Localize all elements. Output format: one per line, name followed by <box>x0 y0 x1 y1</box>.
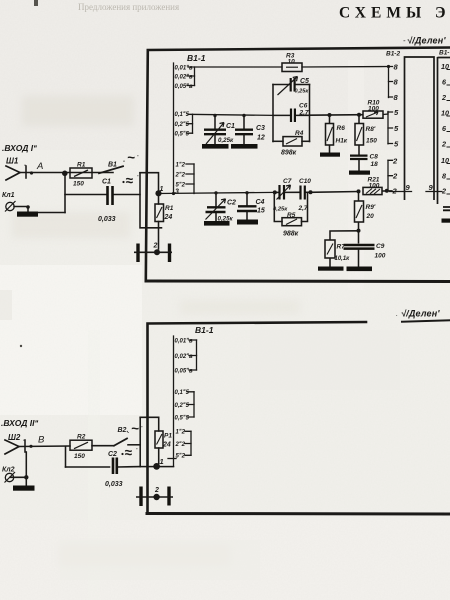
svg-text:~: ~ <box>127 150 135 165</box>
svg-text:С2: С2 <box>227 200 236 207</box>
svg-text:B: B <box>38 435 45 446</box>
svg-text:2,7: 2,7 <box>298 205 308 212</box>
svg-text:24: 24 <box>162 442 171 449</box>
svg-text:R9ʹ: R9ʹ <box>366 204 376 211</box>
svg-text:С9: С9 <box>376 243 385 250</box>
svg-text:3: 3 <box>175 189 179 196</box>
svg-text:0,01ʺв: 0,01ʺв <box>175 64 194 71</box>
svg-text:18: 18 <box>371 161 379 168</box>
svg-text:С4: С4 <box>256 199 265 206</box>
svg-text:R5: R5 <box>287 212 296 219</box>
svg-text:150: 150 <box>74 453 85 460</box>
svg-text:2: 2 <box>441 93 446 102</box>
svg-text:0,05ʺв: 0,05ʺв <box>175 83 194 90</box>
svg-text:0,02ʺв: 0,02ʺв <box>175 353 194 360</box>
svg-text:5ʺ2: 5ʺ2 <box>176 181 186 188</box>
svg-text:0,1ʺ5: 0,1ʺ5 <box>175 389 190 396</box>
svg-text:С1: С1 <box>102 179 111 186</box>
svg-text:Кл2: Кл2 <box>2 467 15 474</box>
svg-text:20: 20 <box>366 213 375 220</box>
svg-text:Ш2: Ш2 <box>8 433 21 442</box>
svg-text:В1: В1 <box>108 162 117 169</box>
svg-text:8: 8 <box>442 172 446 181</box>
svg-text:С8: С8 <box>370 154 379 161</box>
svg-text:988к: 988к <box>283 231 299 238</box>
svg-text:√/Делен': √/Делен' <box>407 36 446 46</box>
svg-text:2: 2 <box>392 172 398 181</box>
svg-text:С7: С7 <box>283 178 292 185</box>
svg-text:Р1: Р1 <box>164 433 172 440</box>
svg-text:2ʺ2: 2ʺ2 <box>175 171 186 178</box>
svg-text:С1: С1 <box>226 123 235 130</box>
svg-text:В1-: В1- <box>439 50 449 57</box>
svg-text:0,02ʺв: 0,02ʺв <box>175 73 194 80</box>
svg-text:12: 12 <box>257 135 265 142</box>
svg-text:2ʺ2: 2ʺ2 <box>175 441 186 448</box>
svg-text:2: 2 <box>392 187 398 196</box>
svg-text:2: 2 <box>441 187 446 196</box>
svg-text:0,1ʺ5: 0,1ʺ5 <box>175 111 190 118</box>
svg-text:Ш1: Ш1 <box>6 157 19 166</box>
svg-text:.ВХОД Iʺ: .ВХОД Iʺ <box>2 143 37 153</box>
svg-text:.ВХОД IIʺ: .ВХОД IIʺ <box>1 418 39 428</box>
svg-text:R2: R2 <box>77 434 86 441</box>
svg-text:R8ʹ: R8ʹ <box>366 126 376 133</box>
svg-text:10,1к: 10,1к <box>335 256 351 262</box>
svg-text:0,5ʺ5: 0,5ʺ5 <box>175 414 190 421</box>
svg-text:В2.: В2. <box>118 427 129 434</box>
svg-text:15: 15 <box>257 208 265 215</box>
svg-text:R1: R1 <box>77 162 86 169</box>
svg-text:≈: ≈ <box>126 173 134 188</box>
svg-text:≈: ≈ <box>125 445 133 460</box>
svg-text:~: ~ <box>131 421 139 436</box>
svg-text:В1-2: В1-2 <box>386 51 400 58</box>
svg-text:Предложения приложения: Предложения приложения <box>78 2 179 12</box>
svg-text:С6: С6 <box>299 103 308 110</box>
svg-text:.: . <box>396 309 398 318</box>
svg-text:R6: R6 <box>337 125 346 132</box>
svg-text:1: 1 <box>160 186 164 193</box>
svg-text:√/Делен': √/Делен' <box>401 309 440 319</box>
svg-text:10: 10 <box>288 59 296 66</box>
svg-text:Н1к: Н1к <box>336 138 348 145</box>
svg-text:0,05ʺв: 0,05ʺв <box>175 367 194 374</box>
svg-text:0,2ʺ5: 0,2ʺ5 <box>175 402 190 409</box>
svg-text:-: - <box>23 438 25 444</box>
svg-text:0,5ʺ5: 0,5ʺ5 <box>175 130 190 137</box>
svg-text:2,7: 2,7 <box>299 110 309 117</box>
svg-text:-: - <box>123 159 125 165</box>
svg-text:100: 100 <box>375 253 386 260</box>
svg-text:2: 2 <box>154 487 159 494</box>
svg-text:Кл1: Кл1 <box>2 192 15 199</box>
svg-text:5ʺ2: 5ʺ2 <box>176 453 186 460</box>
svg-text:0,033: 0,033 <box>98 216 116 223</box>
svg-text:R1: R1 <box>165 205 174 212</box>
svg-text:100: 100 <box>369 182 380 189</box>
svg-text:0,25к: 0,25к <box>218 137 234 144</box>
svg-text:1ʺ2: 1ʺ2 <box>176 429 186 436</box>
svg-text:100: 100 <box>368 106 379 113</box>
svg-text:-: - <box>24 163 26 169</box>
svg-text:С10: С10 <box>299 178 311 185</box>
svg-text:СХЕМЫ Э: СХЕМЫ Э <box>339 5 450 22</box>
svg-text:150: 150 <box>73 181 84 188</box>
svg-text:С3: С3 <box>256 125 265 132</box>
svg-text:С5: С5 <box>300 78 309 85</box>
svg-text:A: A <box>36 161 43 172</box>
svg-text:898к: 898к <box>281 150 297 157</box>
svg-text:0,25к: 0,25к <box>295 89 310 95</box>
svg-text:С2: С2 <box>108 451 117 458</box>
svg-text:0,033: 0,033 <box>105 481 123 488</box>
svg-text:1: 1 <box>160 457 164 466</box>
svg-text:0,2ʺ5: 0,2ʺ5 <box>175 121 190 128</box>
svg-text:0,01ʺв: 0,01ʺв <box>175 337 194 344</box>
svg-text:2: 2 <box>153 243 158 250</box>
svg-text:0,25к: 0,25к <box>273 207 288 213</box>
svg-text:1ʺ2: 1ʺ2 <box>176 161 186 168</box>
svg-text:2: 2 <box>441 140 446 149</box>
svg-text:R4: R4 <box>295 130 304 137</box>
svg-text:24: 24 <box>164 214 173 221</box>
svg-text:2: 2 <box>392 157 398 166</box>
svg-text:150: 150 <box>366 138 377 145</box>
svg-text:В1-1: В1-1 <box>187 53 206 63</box>
svg-text:В1-1: В1-1 <box>195 325 214 335</box>
